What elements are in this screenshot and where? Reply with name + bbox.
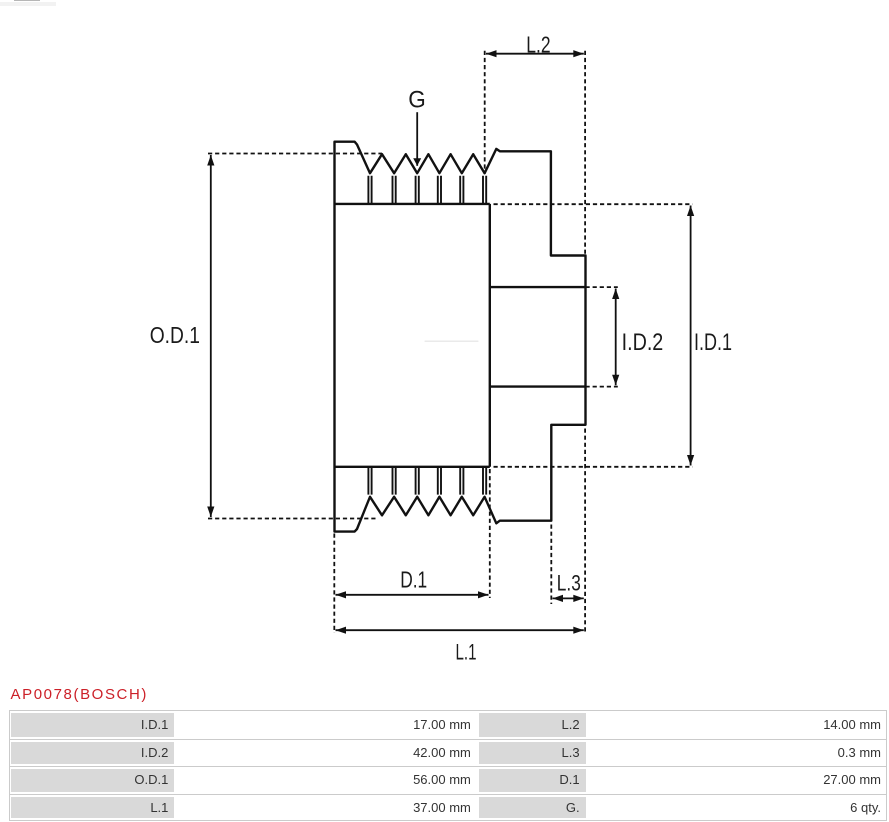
svg-text:D.1: D.1: [400, 567, 427, 593]
svg-text:L.2: L.2: [526, 31, 550, 57]
svg-text:O.D.1: O.D.1: [150, 322, 200, 348]
svg-text:I.D.2: I.D.2: [622, 329, 664, 356]
svg-text:G: G: [408, 87, 426, 114]
svg-text:L.1: L.1: [456, 640, 477, 665]
svg-text:L.3: L.3: [557, 570, 581, 595]
svg-text:I.D.1: I.D.1: [694, 329, 732, 356]
